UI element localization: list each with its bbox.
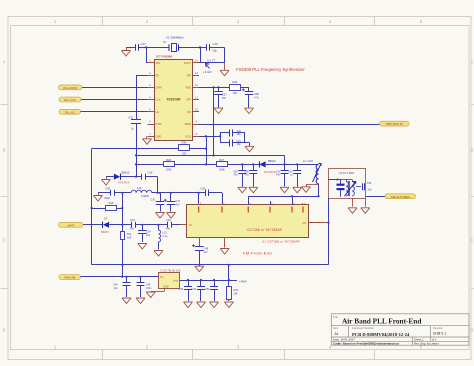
svg-text:10u: 10u <box>114 287 119 290</box>
svg-text:C31: C31 <box>128 115 133 119</box>
svg-text:RFI: RFI <box>187 73 191 77</box>
svg-text:VDD: VDD <box>186 86 192 90</box>
svg-text:10k: 10k <box>233 91 238 95</box>
svg-text:+9VR: +9VR <box>239 279 247 283</box>
svg-text:R26: R26 <box>166 158 171 162</box>
svg-text:47p: 47p <box>130 228 135 231</box>
svg-text:R16: R16 <box>109 201 114 205</box>
svg-text:GND: GND <box>163 286 169 289</box>
svg-text:0.08uH: 0.08uH <box>141 195 149 198</box>
svg-text:C36: C36 <box>200 186 205 190</box>
svg-text:C: C <box>470 238 473 243</box>
svg-text:47p: 47p <box>245 174 250 177</box>
svg-text:1k6: 1k6 <box>127 235 132 239</box>
svg-text:47p: 47p <box>234 174 239 177</box>
svg-text:PLL-LE: PLL-LE <box>65 110 75 114</box>
svg-text:PNK-AB: PNK-AB <box>64 276 75 280</box>
svg-text:21.32848kHz: 21.32848kHz <box>166 36 184 40</box>
svg-text:100p: 100p <box>104 196 110 200</box>
svg-text:A4: A4 <box>335 332 339 336</box>
svg-text:100k: 100k <box>219 167 225 171</box>
svg-text:C: C <box>3 238 6 243</box>
svg-text:FM Front-End: FM Front-End <box>243 251 272 256</box>
svg-text:C35: C35 <box>367 182 372 185</box>
svg-text:IN: IN <box>189 223 192 227</box>
svg-text:R34: R34 <box>182 141 187 145</box>
svg-text:22p: 22p <box>213 49 218 53</box>
svg-text:A: A <box>3 60 6 65</box>
svg-text:B: B <box>470 148 473 153</box>
svg-text:Revision: Revision <box>433 326 444 330</box>
svg-text:3.3 YT: 3.3 YT <box>207 58 215 62</box>
svg-text:Document Number: Document Number <box>352 326 374 330</box>
svg-text:DO: DO <box>187 110 191 114</box>
svg-text:xANT: xANT <box>67 223 74 227</box>
svg-text:L13: L13 <box>137 186 142 190</box>
svg-text:CD7358 or TA7358AP: CD7358 or TA7358AP <box>247 228 283 232</box>
svg-text:VDD2: VDD2 <box>184 122 191 126</box>
svg-text:A: A <box>470 60 473 65</box>
svg-text:Vin: Vin <box>160 276 164 279</box>
svg-text:KV1471S: KV1471S <box>264 170 276 174</box>
svg-text:100: 100 <box>182 152 187 156</box>
svg-text:FS6308M: FS6308M <box>167 97 181 101</box>
svg-text:C32: C32 <box>130 218 135 222</box>
svg-text:0.1u: 0.1u <box>163 235 168 238</box>
svg-text:R27: R27 <box>219 158 224 162</box>
svg-text:PLL-CLK: PLL-CLK <box>64 98 76 102</box>
svg-text:R25: R25 <box>232 80 237 84</box>
svg-text:Title: Title <box>333 315 338 319</box>
svg-text:XOUT: XOUT <box>184 61 192 65</box>
svg-text:VO: VO <box>302 221 306 225</box>
svg-text:100n: 100n <box>146 287 152 290</box>
svg-text:IC12 78L05 L05: IC12 78L05 L05 <box>161 269 181 273</box>
svg-text:Air Band PLL Front-End: Air Band PLL Front-End <box>342 317 421 326</box>
svg-text:FS6308 PLL Frequency Synthesiz: FS6308 PLL Frequency Synthesizer <box>236 67 305 72</box>
svg-text:GND: GND <box>156 134 162 138</box>
svg-text:C49: C49 <box>192 288 197 291</box>
svg-text:47p: 47p <box>146 234 151 237</box>
svg-text:C48: C48 <box>179 288 184 291</box>
svg-text:R11: R11 <box>127 232 132 236</box>
svg-text:Draft 0.1: Draft 0.1 <box>433 332 446 336</box>
svg-text:C50: C50 <box>205 288 210 291</box>
svg-text:10n: 10n <box>368 189 373 192</box>
svg-text:C16: C16 <box>213 42 219 46</box>
svg-text:VCO: VCO <box>185 134 191 138</box>
svg-text:D4: D4 <box>104 217 108 221</box>
svg-text:4.7u: 4.7u <box>254 95 260 99</box>
svg-text:100k: 100k <box>166 167 172 171</box>
svg-text:DATA: DATA <box>156 86 163 90</box>
svg-text:L1 1.1uH: L1 1.1uH <box>303 160 313 163</box>
svg-text:47p: 47p <box>166 228 171 231</box>
svg-text:4u7: 4u7 <box>176 203 181 206</box>
svg-text:CLK: CLK <box>156 98 161 102</box>
svg-text:XIN: XIN <box>156 61 160 65</box>
svg-text:CadIn: Based on FreeSat6308@ra: CadIn: Based on FreeSat6308@radioamateur… <box>333 342 399 346</box>
svg-text:KV1471S: KV1471S <box>118 181 130 185</box>
svg-text:C33: C33 <box>166 218 171 222</box>
svg-text:Vout: Vout <box>173 280 178 283</box>
svg-text:PLL-DATA: PLL-DATA <box>64 86 77 90</box>
svg-text:C29: C29 <box>148 171 153 175</box>
svg-text:BB910: BB910 <box>268 160 276 163</box>
svg-text:AIR-FLTUNED: AIR-FLTUNED <box>391 195 410 199</box>
svg-text:U1 CD7358 or TA7358AP: U1 CD7358 or TA7358AP <box>262 240 300 244</box>
svg-text:IC7 FS6308: IC7 FS6308 <box>156 55 172 59</box>
svg-text:LPF: LPF <box>186 98 191 102</box>
svg-text:C17: C17 <box>141 42 147 46</box>
svg-text:X1: X1 <box>163 40 167 44</box>
svg-text:U3 10.7 MHz: U3 10.7 MHz <box>339 171 355 175</box>
svg-text:L12: L12 <box>163 231 168 235</box>
svg-text:LE: LE <box>156 110 159 114</box>
svg-text:18p: 18p <box>237 133 242 136</box>
svg-text:D: D <box>3 328 6 333</box>
svg-text:47p: 47p <box>276 174 281 177</box>
svg-text:Size: Size <box>333 326 339 330</box>
svg-text:B: B <box>3 148 6 153</box>
svg-text:4u7: 4u7 <box>204 251 209 254</box>
svg-text:C30: C30 <box>150 199 155 202</box>
svg-text:+3.3uF: +3.3uF <box>203 70 212 74</box>
svg-text:C28: C28 <box>105 187 110 191</box>
svg-text:BA679: BA679 <box>101 230 109 234</box>
svg-text:PD: PD <box>156 73 160 77</box>
svg-text:BB910: BB910 <box>122 170 130 174</box>
svg-text:1350-PNK-3V: 1350-PNK-3V <box>385 122 403 126</box>
svg-text:STAT: STAT <box>156 122 163 126</box>
svg-text:10n: 10n <box>222 96 227 100</box>
svg-text:D: D <box>470 328 473 333</box>
svg-text:PCB D-808MV04(2018-12-24: PCB D-808MV04(2018-12-24 <box>352 332 410 337</box>
svg-text:Rev. Eng. by j.elsen: Rev. Eng. by j.elsen <box>414 342 439 346</box>
svg-text:18p: 18p <box>237 143 242 146</box>
